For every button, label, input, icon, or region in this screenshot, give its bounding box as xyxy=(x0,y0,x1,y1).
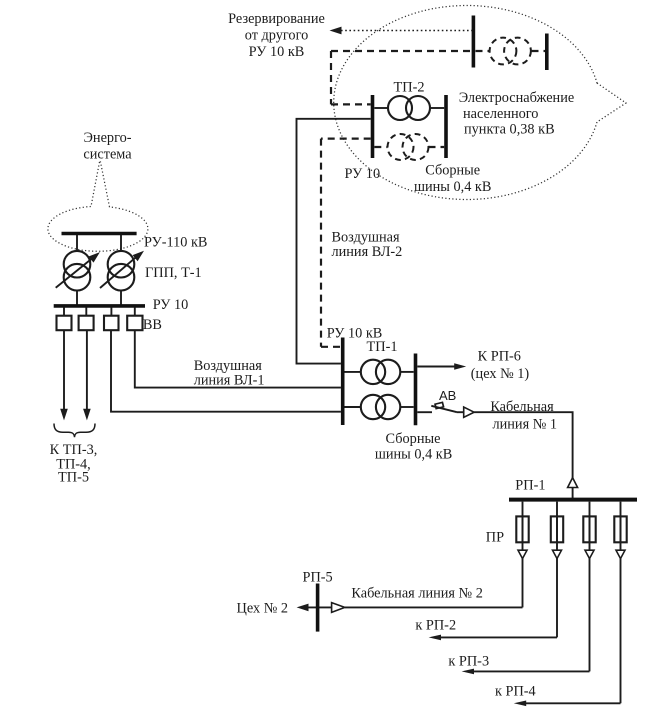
wire: to РП-1 bus xyxy=(572,488,574,499)
svg-text:ГПП, Т-1: ГПП, Т-1 xyxy=(145,265,202,281)
node: reserve text "Резервирование от другого РУ 10 кВ" xyxy=(228,11,325,60)
transformer ГПП Т-1 left xyxy=(56,251,100,291)
svg-text:ТП-5: ТП-5 xyxy=(58,470,89,486)
wire: Воздушная линия ВЛ-1 xyxy=(135,330,341,387)
svg-text:(цех № 1): (цех № 1) xyxy=(471,366,530,382)
svg-text:населенного: населенного xyxy=(463,106,538,122)
svg-text:линия № 1: линия № 1 xyxy=(492,417,557,433)
svg-text:Сборные: Сборные xyxy=(386,431,441,447)
transformer ТП-1 upper xyxy=(345,360,414,384)
feeder РП-1 #1 (fuse ПР, to РП-5) xyxy=(516,502,528,608)
wire: к РП-4 arrow xyxy=(514,701,621,707)
svg-text:к РП-4: к РП-4 xyxy=(495,684,536,700)
wire: ВЛ-2 solid line ТП-2 to ТП-1 xyxy=(297,119,371,364)
wire: stubs bus to breakers xyxy=(64,308,135,317)
wire: feeder to ТП-4 (arrow) xyxy=(83,330,91,420)
svg-text:Энерго-: Энерго- xyxy=(83,130,131,146)
svg-text:Воздушная: Воздушная xyxy=(194,358,263,374)
transformer ГПП Т-1 right xyxy=(100,251,144,291)
bus: reserve busbar 1 xyxy=(472,16,476,68)
svg-text:РП-1: РП-1 xyxy=(515,478,545,494)
bus: ТП-2 left bar (РУ 10) xyxy=(371,95,375,158)
breaker ВВ 2 xyxy=(79,316,94,331)
wire: Кабельная линия № 2 xyxy=(297,603,523,613)
svg-text:К РП-6: К РП-6 xyxy=(478,349,521,365)
label Воздушная линия ВЛ-2 xyxy=(332,229,403,260)
transformer ТП-1 lower xyxy=(345,395,414,419)
label Сборные шины 0,4 кВ (ТП-2) xyxy=(414,163,491,196)
svg-text:Электроснабжение: Электроснабжение xyxy=(459,90,575,106)
cable head triangle at РП-1 xyxy=(568,478,578,488)
svg-text:РУ 10 кВ: РУ 10 кВ xyxy=(249,44,305,60)
bus: РП-5 bar xyxy=(316,584,320,632)
breaker ВВ 1 xyxy=(57,316,72,331)
svg-text:АВ: АВ xyxy=(439,388,456,403)
svg-text:ПР: ПР xyxy=(486,530,504,546)
bus: РП-1 busbar xyxy=(509,498,637,502)
svg-text:Кабельная линия № 2: Кабельная линия № 2 xyxy=(351,586,483,602)
transformer ТП-2 reserve (dashed) xyxy=(374,134,444,160)
transformer (reserve, dashed) xyxy=(490,38,531,65)
svg-text:шины 0,4 кВ: шины 0,4 кВ xyxy=(375,447,452,463)
svg-text:РП-5: РП-5 xyxy=(303,570,333,586)
label К РП-6 (цех № 1) xyxy=(471,349,530,383)
svg-text:к РП-2: к РП-2 xyxy=(415,618,456,634)
svg-text:РУ 10: РУ 10 xyxy=(345,166,381,182)
wire: dashed from reserve to ТП-2 xyxy=(331,51,371,104)
bus: ТП-1 left bar xyxy=(341,338,345,426)
label К ТП-3, ТП-4, ТП-5 xyxy=(50,442,98,486)
svg-text:ТП-2: ТП-2 xyxy=(394,80,425,96)
svg-text:ТП-1: ТП-1 xyxy=(367,339,398,355)
label Кабельная линия № 1 xyxy=(490,399,557,433)
wire: к РП-2 arrow xyxy=(429,635,557,641)
wire: К РП-6 arrow xyxy=(417,363,466,369)
label Электроснабжение населенного пункта 0,38 кВ xyxy=(459,90,575,138)
breaker ВВ 3 xyxy=(104,316,119,331)
svg-text:Резервирование: Резервирование xyxy=(228,11,325,27)
feeder РП-1 #3 (fuse, к РП-3) xyxy=(583,502,595,672)
svg-text:РУ-110 кВ: РУ-110 кВ xyxy=(144,235,207,251)
svg-text:от другого: от другого xyxy=(245,28,308,44)
svg-text:пункта 0,38 кВ: пункта 0,38 кВ xyxy=(464,122,555,138)
bus: reserve busbar 2 xyxy=(545,34,549,71)
svg-text:Сборные: Сборные xyxy=(425,163,480,179)
brace under arrows xyxy=(54,424,95,438)
svg-text:ВВ: ВВ xyxy=(143,317,162,333)
feeder РП-1 #4 (fuse, к РП-4) xyxy=(614,502,626,704)
label Воздушная линия ВЛ-1 xyxy=(194,358,265,389)
svg-text:к РП-3: к РП-3 xyxy=(448,654,489,670)
bubble ellipse (Энергосистема) xyxy=(48,162,148,251)
wire: к РП-3 arrow xyxy=(462,669,590,675)
node: Энергосистема xyxy=(83,130,132,163)
bus: РУ 10 busbar xyxy=(54,304,145,308)
wire: transformer to РУ-10 stubs xyxy=(77,290,121,305)
breaker АВ (switch) xyxy=(417,402,474,417)
wire: lower feeder to ТП-1 bar xyxy=(111,330,341,412)
svg-text:РУ 10: РУ 10 xyxy=(153,297,189,313)
wire: Кабельная линия № 1 xyxy=(474,412,572,478)
bubble ellipse (Электроснабжение населенного пункта) xyxy=(334,5,626,199)
svg-text:линия ВЛ-2: линия ВЛ-2 xyxy=(332,244,403,260)
bus: ТП-1 right bar xyxy=(414,354,418,426)
svg-text:система: система xyxy=(83,147,132,163)
svg-text:Цех № 2: Цех № 2 xyxy=(237,601,289,617)
breaker ВВ 4 xyxy=(127,316,142,331)
svg-text:Кабельная: Кабельная xyxy=(490,399,554,415)
wire: dotted arrow to reserve РУ xyxy=(330,27,474,35)
wire: ВЛ-2 dashed reserve line xyxy=(321,139,371,347)
transformer ТП-2 working xyxy=(374,96,444,120)
svg-text:шины 0,4 кВ: шины 0,4 кВ xyxy=(414,179,491,195)
feeder РП-1 #2 (fuse, к РП-2) xyxy=(551,502,563,638)
svg-text:Воздушная: Воздушная xyxy=(332,229,401,245)
bus: РУ-110 кВ busbar xyxy=(62,232,137,236)
wire: dashed reserve feeder xyxy=(331,50,545,52)
bus: ТП-2 right bar (0,4 кВ) xyxy=(444,95,448,158)
svg-text:линия ВЛ-1: линия ВЛ-1 xyxy=(194,373,265,389)
wire: feeder to ТП-3 (arrow) xyxy=(60,330,68,420)
label Сборные шины 0,4 кВ (ТП-1) xyxy=(375,431,452,463)
wire: drops from РУ-110 to transformers xyxy=(77,235,121,252)
